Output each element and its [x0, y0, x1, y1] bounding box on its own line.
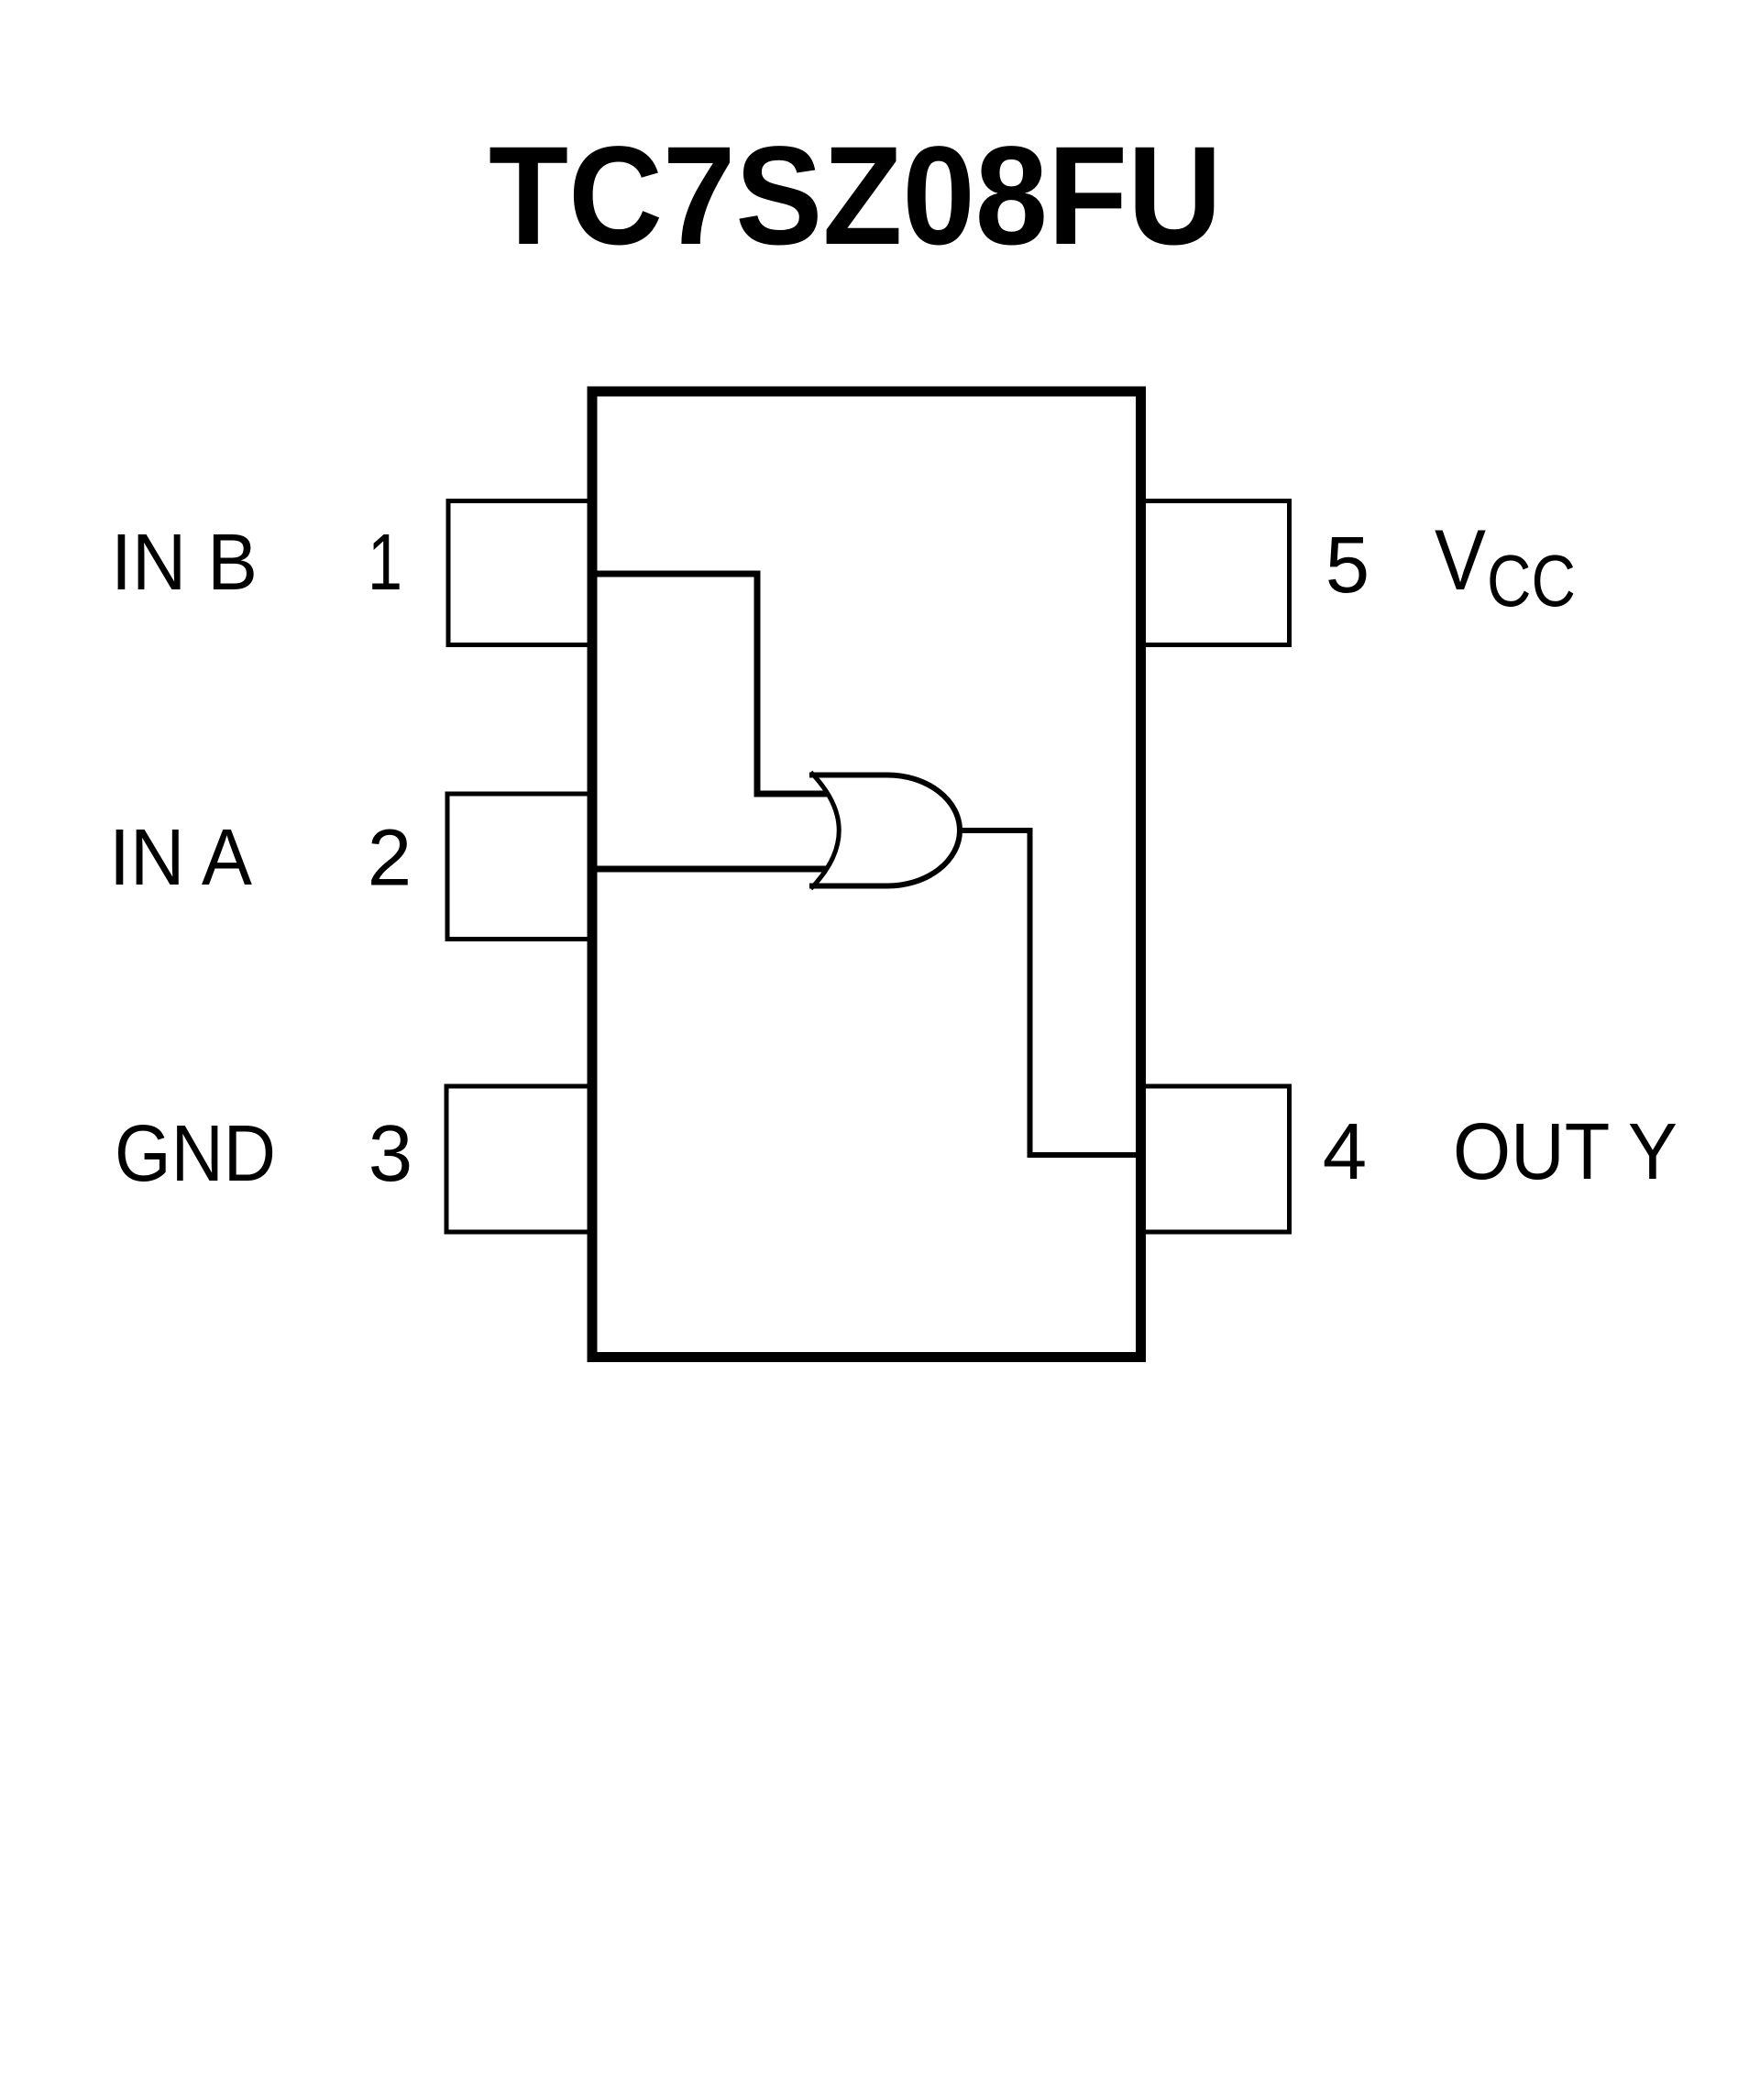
svg-text:GND: GND: [115, 1109, 276, 1198]
pin 2 pad: [447, 794, 594, 940]
svg-text:2: 2: [368, 814, 412, 903]
pin 3 pad: [446, 1086, 594, 1232]
AND gate concave input arc: [811, 773, 840, 889]
svg-text:1: 1: [368, 518, 402, 607]
pin 5 pad: [1139, 501, 1290, 645]
AND gate U1 body: [809, 775, 960, 886]
svg-text:IN A: IN A: [109, 813, 252, 902]
svg-text:4: 4: [1323, 1107, 1367, 1196]
svg-text:TC7SZ08FU: TC7SZ08FU: [489, 117, 1222, 274]
pin 4 pad: [1139, 1086, 1290, 1232]
svg-text:CC: CC: [1487, 540, 1576, 621]
svg-text:3: 3: [368, 1109, 412, 1198]
wire pin2 to gate input A: [597, 866, 827, 873]
wire pin1 to gate input B: [597, 574, 827, 794]
pin 1 pad: [448, 501, 594, 645]
svg-text:V: V: [1435, 511, 1486, 608]
svg-text:OUT Y: OUT Y: [1453, 1107, 1677, 1196]
IC body U1 (SOT-353 outline): [592, 391, 1141, 1358]
wire gate output to pin4: [958, 830, 1138, 1155]
svg-text:IN B: IN B: [111, 518, 258, 607]
svg-text:5: 5: [1325, 521, 1369, 610]
